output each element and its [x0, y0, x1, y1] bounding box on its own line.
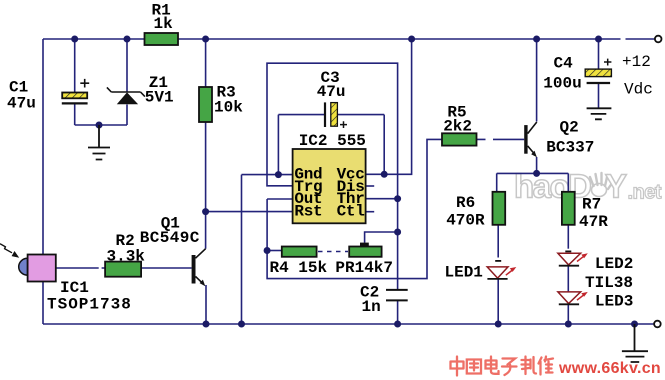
wire Thr pin	[366, 198, 398, 200]
svg-text:3.3k: 3.3k	[107, 247, 146, 265]
wire Vcc pin to top rail	[366, 39, 412, 174]
resistor R7	[562, 192, 575, 225]
node Out/R4	[264, 247, 271, 254]
svg-text:10k: 10k	[214, 99, 243, 117]
svg-text:5V1: 5V1	[145, 89, 174, 107]
wire R6 to LED1	[497, 225, 499, 258]
LED2	[558, 251, 588, 265]
wire C2 to bottom rail	[397, 301, 399, 324]
node ground bottom right	[631, 321, 638, 328]
terminal 0V	[654, 321, 661, 328]
node Thr	[394, 195, 401, 202]
transistor Q2	[524, 122, 537, 157]
char dian	[486, 357, 499, 374]
resistor R2	[105, 262, 141, 277]
svg-text:+12: +12	[622, 53, 651, 71]
transistor Q1	[192, 249, 206, 287]
wire bottom rail	[43, 323, 654, 325]
wire Q2 emitter node split	[497, 157, 569, 192]
svg-text:PR14k7: PR14k7	[335, 259, 393, 277]
resistor R6	[493, 192, 506, 225]
svg-text:.net: .net	[628, 182, 662, 204]
wire zener branch	[75, 39, 127, 125]
LED3	[558, 292, 588, 304]
red watermark 中国电子制作	[451, 357, 554, 376]
wire Rst to R3 node	[206, 211, 293, 213]
IC1 TSOP1738	[19, 255, 56, 282]
svg-text:47u: 47u	[317, 83, 346, 101]
resistor R3	[199, 87, 212, 122]
wire LED2 to LED3	[567, 266, 569, 292]
wire Out pin loop to R5	[267, 139, 442, 278]
wire LED1 to bottom rail	[497, 279, 499, 324]
svg-text:C4: C4	[554, 55, 574, 73]
svg-text:LED1: LED1	[445, 264, 483, 282]
terminal +12	[655, 36, 662, 43]
char zuo	[539, 357, 554, 375]
svg-text:470R: 470R	[446, 212, 485, 230]
svg-text:R4 15k: R4 15k	[270, 259, 328, 277]
node wiper/Thr	[394, 229, 401, 236]
wire left rail	[42, 39, 44, 324]
node Q2 emitter	[533, 170, 540, 177]
capacitor C1	[62, 79, 89, 104]
wire 555 Gnd pin to bottom rail	[242, 175, 293, 324]
wire Dis pin stub	[366, 185, 375, 187]
node Q1 emitter bottom	[203, 321, 210, 328]
wire R5 to Q2 base	[477, 138, 525, 140]
wire Q2 collector to top rail	[536, 39, 538, 122]
wire top rail	[43, 38, 655, 40]
svg-text:R7: R7	[582, 195, 601, 213]
svg-text:www.66kv.cn: www.66kv.cn	[558, 360, 661, 377]
wire PR wiper to Thr node	[365, 232, 398, 243]
node R3/Rst	[202, 208, 209, 215]
node zener/C1 ground	[96, 122, 103, 129]
node Vcc pin / C3 right	[381, 171, 388, 178]
capacitor C4	[585, 59, 611, 83]
node LED1 bottom	[495, 321, 502, 328]
svg-text:100u: 100u	[543, 75, 581, 93]
wire Q1 emitter down	[205, 285, 207, 324]
svg-text:R6: R6	[456, 194, 475, 212]
IR arrow	[0, 244, 19, 258]
node Z1 top	[124, 36, 131, 43]
ground near C1/Z1	[88, 125, 110, 160]
svg-text:TIL38: TIL38	[585, 274, 633, 292]
svg-text:IC1: IC1	[60, 279, 89, 297]
char zi	[502, 359, 517, 376]
node Vcc riser top	[408, 36, 415, 43]
char zhong	[451, 357, 464, 376]
zener Z1	[107, 87, 145, 104]
ground at C4	[587, 108, 612, 119]
wire Trg frame	[267, 63, 398, 289]
preset PR14k7	[349, 243, 381, 257]
resistor R4	[282, 247, 317, 257]
node C2 bottom	[394, 321, 401, 328]
node C4 top	[595, 36, 602, 43]
svg-text:BC337: BC337	[546, 139, 594, 157]
wire R2 to Q1 base	[141, 267, 192, 269]
node Q2 collector top	[533, 36, 540, 43]
wire Ctl pin stub	[366, 211, 375, 213]
svg-text:47u: 47u	[7, 95, 36, 113]
resistor R5	[442, 133, 477, 145]
wire R4 left connection	[267, 250, 282, 252]
char zhi	[522, 357, 537, 375]
svg-text:1n: 1n	[362, 298, 381, 316]
watermark haoDY.net	[514, 168, 662, 205]
svg-text:TSOP1738: TSOP1738	[47, 296, 132, 314]
svg-text:Ctl: Ctl	[337, 203, 365, 221]
wire LED3 to bottom rail	[567, 305, 569, 325]
svg-text:2k2: 2k2	[443, 118, 472, 136]
wire R4 to PR dashed	[318, 251, 348, 253]
wire C3 left	[278, 115, 324, 175]
LED1	[487, 261, 516, 279]
wire C4 branch	[598, 39, 600, 108]
node Gnd pin / C3 left	[275, 171, 282, 178]
svg-text:Q2: Q2	[560, 118, 579, 136]
wire R3 branch	[205, 39, 207, 249]
node Gnd bottom	[238, 321, 245, 328]
resistor R1	[145, 33, 179, 45]
wire C1 branch	[74, 39, 76, 125]
svg-text:LED2: LED2	[595, 255, 633, 273]
capacitor C3	[325, 102, 347, 128]
node C1 top	[71, 36, 78, 43]
ground bottom right	[622, 324, 648, 362]
svg-text:Y: Y	[605, 168, 627, 205]
capacitor C2	[386, 290, 408, 301]
svg-text:LED3: LED3	[595, 293, 633, 311]
IC2 555 box	[293, 149, 366, 223]
svg-text:47R: 47R	[579, 213, 608, 231]
svg-text:BC549C: BC549C	[140, 229, 200, 247]
wire R7 to LED2	[567, 225, 569, 249]
node R3 top	[202, 36, 209, 43]
svg-text:Rst: Rst	[294, 203, 322, 221]
char guo	[467, 360, 481, 374]
svg-text:1k: 1k	[154, 15, 174, 33]
node LED3 bottom	[565, 321, 572, 328]
svg-text:IC2 555: IC2 555	[299, 132, 366, 150]
wire C3 right	[338, 115, 385, 175]
wire IC1 out to R2	[56, 267, 105, 269]
svg-text:Vdc: Vdc	[624, 80, 653, 98]
